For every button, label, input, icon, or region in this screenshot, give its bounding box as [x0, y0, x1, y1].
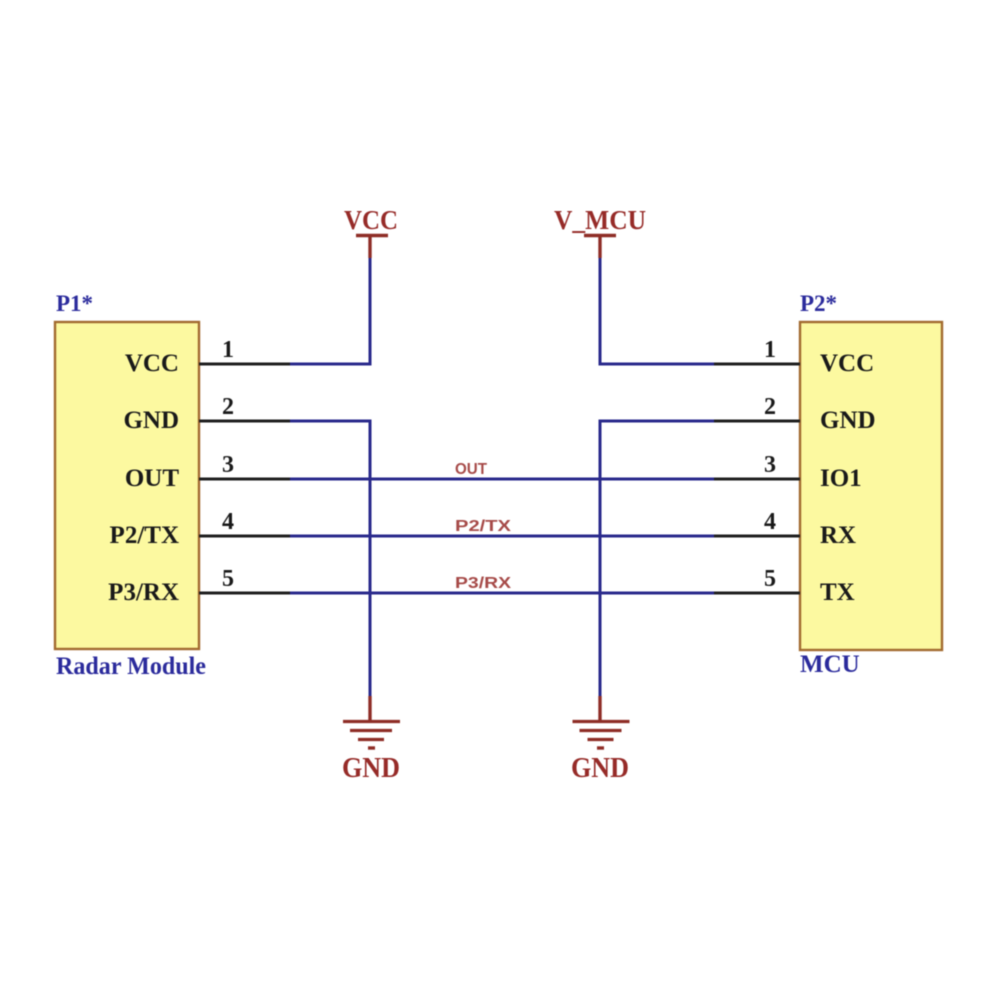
pin number 4 (P2) — [764, 509, 776, 535]
wire net P3/RX (row 5) — [290, 592, 714, 595]
svg-text:OUT: OUT — [455, 461, 487, 478]
pin number 3 (P1) — [222, 452, 234, 478]
pin name GND (P2 pin 2) — [820, 407, 876, 434]
svg-text:V_MCU: V_MCU — [554, 205, 646, 235]
pin stub P2-1 — [712, 363, 800, 366]
svg-text:IO1: IO1 — [820, 465, 862, 492]
pin number 5 (P1) — [222, 566, 234, 592]
svg-text:GND: GND — [820, 407, 876, 434]
svg-text:2: 2 — [222, 394, 234, 420]
pin number 2 (P2) — [764, 394, 776, 420]
svg-text:P3/RX: P3/RX — [455, 575, 511, 592]
ground GND left bar1 — [343, 720, 400, 723]
pin stub P1-3 — [199, 478, 292, 481]
net label P2/TX — [455, 518, 511, 535]
ground net label GND left — [342, 753, 400, 784]
svg-text:P2/TX: P2/TX — [455, 518, 511, 535]
pin stub P1-2 — [199, 420, 292, 423]
svg-text:OUT: OUT — [125, 465, 180, 492]
net label P3/RX — [455, 575, 511, 592]
comment Radar Module — [56, 653, 206, 680]
pin name P2/TX (P1 pin 4) — [110, 522, 179, 549]
wire net OUT (row 3) — [290, 478, 714, 481]
pin stub P2-2 — [712, 420, 800, 423]
svg-text:VCC: VCC — [820, 350, 874, 377]
pin name P3/RX (P1 pin 5) — [108, 579, 179, 606]
svg-text:GND: GND — [123, 407, 179, 434]
comment MCU — [800, 651, 860, 678]
svg-text:1: 1 — [764, 337, 776, 363]
svg-text:3: 3 — [222, 452, 234, 478]
pin name RX (P2 pin 4) — [820, 522, 856, 549]
power port V_MCU stem — [598, 236, 601, 258]
pin number 3 (P2) — [764, 452, 776, 478]
wire net P2/TX (row 4) — [290, 535, 714, 538]
wire P2 pin1 to V_MCU vertical — [599, 363, 715, 366]
svg-text:GND: GND — [571, 753, 629, 784]
svg-text:4: 4 — [222, 509, 234, 535]
svg-text:P3/RX: P3/RX — [108, 579, 179, 606]
pin number 1 (P2) — [764, 337, 776, 363]
power net label V_MCU — [554, 205, 646, 235]
pin stub P2-3 — [712, 478, 800, 481]
designator P2* — [800, 291, 837, 316]
wire P1 pin2 to GND vertical — [290, 420, 372, 423]
svg-text:1: 1 — [222, 337, 234, 363]
pin name TX (P2 pin 5) — [820, 579, 855, 606]
pin name VCC (P1 pin 1) — [125, 350, 179, 377]
connector P1 body (Radar Module) — [55, 322, 199, 649]
wire left GND vertical drop — [369, 420, 372, 698]
connector P2 body (MCU) — [800, 322, 942, 650]
ground GND right bar3 — [588, 738, 614, 741]
ground GND left bar2 — [350, 729, 392, 732]
net label OUT — [455, 461, 487, 478]
svg-text:5: 5 — [222, 566, 234, 592]
svg-text:P2*: P2* — [800, 291, 837, 316]
ground GND left bar3 — [358, 738, 384, 741]
wire VCC vertical riser — [369, 256, 372, 365]
svg-text:VCC: VCC — [125, 350, 179, 377]
pin name IO1 (P2 pin 3) — [820, 465, 862, 492]
pin number 2 (P1) — [222, 394, 234, 420]
ground GND right stem — [598, 696, 601, 721]
ground GND left bar4 — [368, 746, 375, 749]
svg-text:4: 4 — [764, 509, 776, 535]
pin stub P1-5 — [199, 592, 292, 595]
pin name GND (P1 pin 2) — [123, 407, 179, 434]
power port VCC stem — [368, 236, 371, 258]
ground GND right bar1 — [573, 720, 630, 723]
pin number 1 (P1) — [222, 337, 234, 363]
svg-text:3: 3 — [764, 452, 776, 478]
svg-text:VCC: VCC — [344, 205, 398, 235]
svg-text:GND: GND — [342, 753, 400, 784]
svg-text:P2/TX: P2/TX — [110, 522, 179, 549]
pin number 4 (P1) — [222, 509, 234, 535]
wire P2 pin2 to GND vertical — [599, 420, 715, 423]
ground GND right bar2 — [580, 729, 622, 732]
wire right GND vertical drop — [599, 420, 602, 698]
svg-text:RX: RX — [820, 522, 856, 549]
power port V_MCU bar — [584, 234, 616, 238]
pin name OUT (P1 pin 3) — [125, 465, 180, 492]
svg-text:2: 2 — [764, 394, 776, 420]
wire V_MCU vertical riser — [599, 256, 602, 365]
pin stub P1-4 — [199, 535, 292, 538]
ground GND right bar4 — [597, 746, 604, 749]
power port VCC bar — [356, 234, 388, 238]
pin stub P1-1 — [199, 363, 292, 366]
wire P1 pin1 to VCC vertical — [290, 363, 372, 366]
designator P1* — [56, 291, 93, 316]
svg-text:P1*: P1* — [56, 291, 93, 316]
ground net label GND right — [571, 753, 629, 784]
power net label VCC — [344, 205, 398, 235]
ground GND left stem — [368, 696, 371, 721]
svg-text:5: 5 — [764, 566, 776, 592]
pin stub P2-4 — [712, 535, 800, 538]
pin name VCC (P2 pin 1) — [820, 350, 874, 377]
svg-text:Radar Module: Radar Module — [56, 653, 206, 680]
svg-text:MCU: MCU — [800, 651, 860, 678]
svg-text:TX: TX — [820, 579, 855, 606]
pin number 5 (P2) — [764, 566, 776, 592]
pin stub P2-5 — [712, 592, 800, 595]
